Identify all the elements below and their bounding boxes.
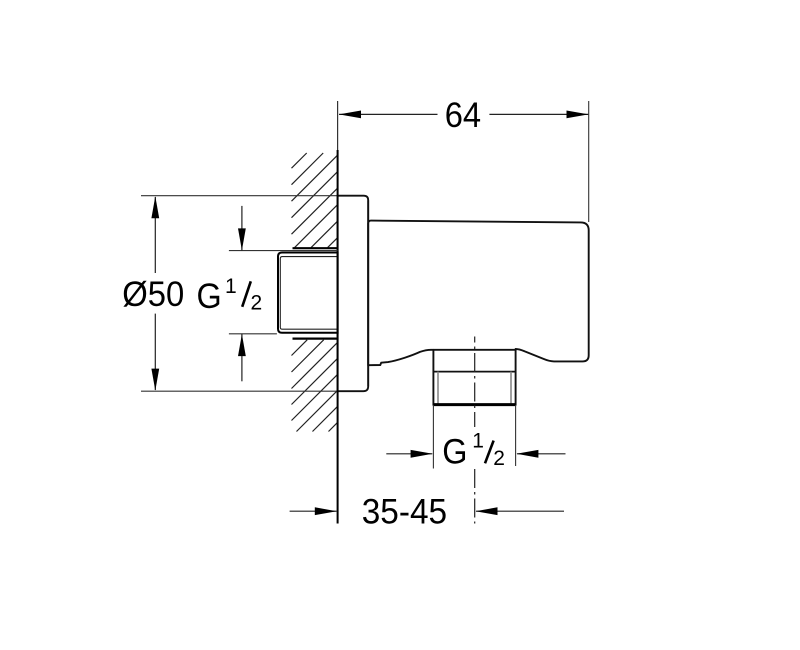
outlet thread bottom	[433, 403, 515, 406]
outlet hex shoulder line	[433, 371, 517, 373]
dimension 64 arrowheads	[339, 111, 361, 119]
dimension 64 line	[339, 113, 438, 115]
svg-text:1: 1	[225, 275, 237, 298]
flange front face line	[367, 200, 369, 386]
inlet thread dim arrow bottom	[241, 334, 243, 382]
wall face line	[337, 101, 339, 150]
svg-text:G: G	[197, 276, 222, 316]
outlet G 1/2 dim arrow right	[517, 453, 566, 455]
outlet thread relief right	[510, 372, 512, 404]
dimension Ø50 line	[154, 197, 156, 273]
inlet G 1/2 label	[197, 275, 263, 316]
outlet to body joint line	[433, 349, 515, 351]
dimension Ø50 extension line bottom	[141, 390, 338, 392]
center line of outlet	[474, 337, 476, 524]
outlet G 1/2 dim extension left	[432, 405, 434, 469]
outlet G 1/2 dim arrow left	[386, 453, 432, 455]
outlet G 1/2 label	[442, 430, 505, 472]
inlet thread dim extension top	[229, 250, 338, 252]
dimension Ø50 arrowheads	[151, 196, 159, 218]
wall hatching lower	[292, 340, 338, 432]
wall cut line above inlet	[293, 247, 338, 249]
svg-text:2: 2	[493, 447, 505, 470]
dimension 35-45 arrow right	[476, 510, 564, 512]
inlet pipe stub outer	[278, 253, 338, 333]
escutcheon flange	[338, 196, 369, 392]
outlet G 1/2 dim extension right	[515, 405, 517, 466]
svg-text:Ø50: Ø50	[122, 274, 184, 314]
svg-text:1: 1	[472, 430, 484, 453]
body outline	[368, 221, 589, 405]
inlet pipe stub thread relief	[280, 257, 337, 330]
inlet thread dim arrow top	[241, 206, 243, 251]
dimension Ø50 extension line top	[141, 195, 338, 197]
svg-text:G: G	[442, 431, 467, 471]
dimension 64 extension line right	[588, 101, 590, 222]
svg-text:2: 2	[251, 292, 263, 315]
svg-text:64: 64	[445, 95, 481, 135]
wall cut line below inlet	[293, 338, 338, 340]
inlet thread dim extension bottom	[229, 333, 277, 335]
dimension 35-45 arrow left	[290, 510, 337, 512]
outlet thread relief left	[437, 372, 439, 404]
svg-text:35-45: 35-45	[362, 492, 447, 532]
wall hatching upper	[292, 153, 338, 248]
